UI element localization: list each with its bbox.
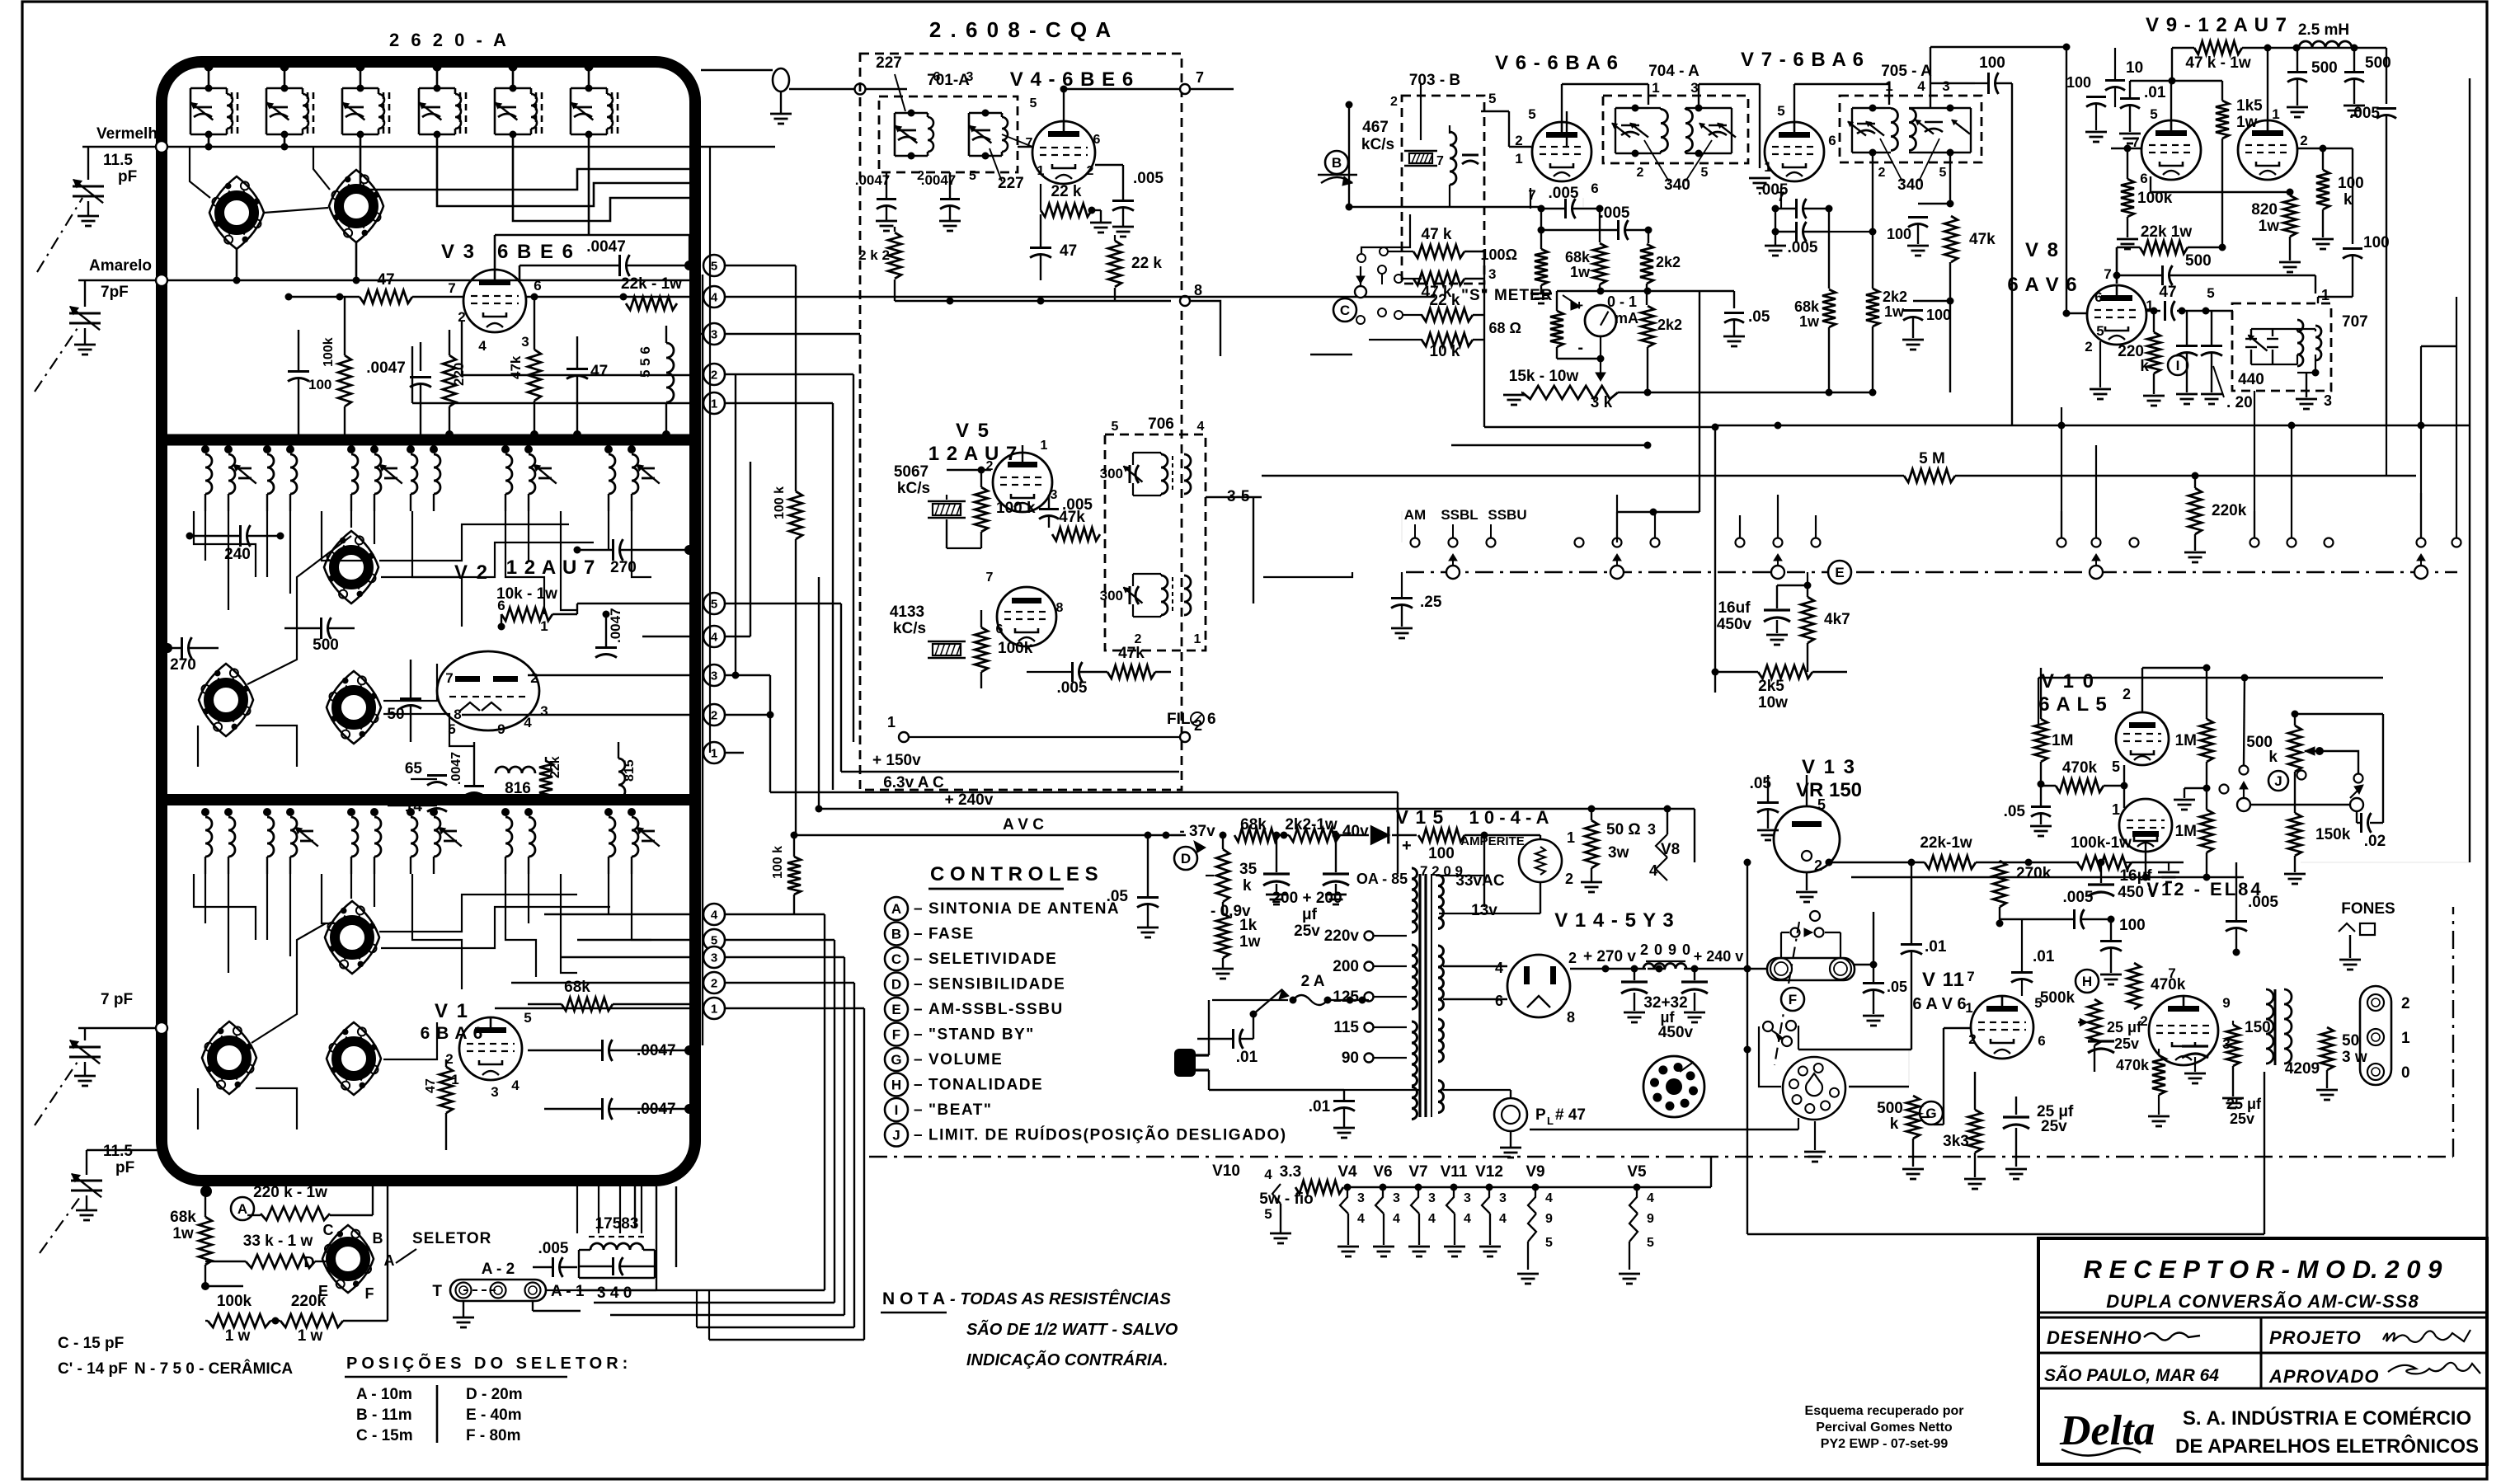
svg-text:450v: 450v [1658, 1024, 1694, 1041]
svg-text:2: 2 [1194, 717, 1202, 734]
svg-text:10k - 1w: 10k - 1w [496, 585, 557, 603]
svg-text:TONALIDADE: TONALIDADE [928, 1077, 1043, 1094]
svg-text:5067: 5067 [894, 463, 928, 481]
svg-text:A: A [237, 1201, 247, 1217]
svg-text:V 6 - 6 B A 6: V 6 - 6 B A 6 [1495, 52, 1619, 74]
svg-text:470k: 470k [2116, 1057, 2150, 1073]
svg-text:22 k: 22 k [1131, 255, 1162, 272]
svg-text:1w: 1w [1239, 933, 1261, 951]
svg-text:3: 3 [521, 334, 529, 350]
svg-text:25 μf: 25 μf [2107, 1019, 2142, 1036]
svg-text:V 9 - 1 2 A U 7: V 9 - 1 2 A U 7 [2146, 14, 2287, 36]
svg-text:E - 40m: E - 40m [466, 1407, 522, 1424]
svg-text:V 1 5: V 1 5 [1396, 806, 1445, 828]
svg-text:POSIÇÕES DO SELETOR:: POSIÇÕES DO SELETOR: [346, 1353, 632, 1373]
svg-text:"STAND BY": "STAND BY" [928, 1026, 1035, 1044]
svg-text:V 1: V 1 [435, 1000, 469, 1022]
svg-text:100: 100 [1887, 226, 1911, 242]
svg-text:270: 270 [170, 656, 196, 674]
svg-text:4: 4 [1357, 1212, 1365, 1226]
svg-text:5: 5 [2096, 323, 2104, 339]
svg-text:4: 4 [1545, 1191, 1553, 1205]
svg-text:5w - fio: 5w - fio [1259, 1190, 1313, 1208]
svg-text:6 A L 5: 6 A L 5 [2038, 693, 2107, 716]
svg-text:V 11: V 11 [1922, 969, 1965, 991]
svg-text:9: 9 [2222, 995, 2230, 1011]
svg-text:47: 47 [1060, 242, 1077, 260]
svg-text:V12 - EL84: V12 - EL84 [2146, 879, 2263, 899]
svg-text:1: 1 [1037, 164, 1045, 178]
svg-text:47 k - 1w: 47 k - 1w [2185, 54, 2250, 72]
svg-text:3: 3 [491, 1084, 498, 1100]
svg-text:1 w: 1 w [298, 1327, 323, 1345]
svg-text:3: 3 [1942, 78, 1949, 94]
svg-text:4: 4 [1647, 1191, 1654, 1205]
svg-text:7: 7 [2104, 266, 2111, 282]
svg-text:22k 1w: 22k 1w [2141, 223, 2193, 241]
svg-text:SÃO DE 1/2 WATT - SALVO: SÃO DE 1/2 WATT - SALVO [966, 1320, 1178, 1339]
svg-text:22 k: 22 k [1051, 183, 1082, 200]
svg-text:J: J [2274, 773, 2282, 789]
svg-text:2 A: 2 A [1301, 973, 1325, 990]
svg-text:kC/s: kC/s [1361, 136, 1394, 153]
svg-text:1: 1 [1567, 829, 1575, 846]
svg-text:V5: V5 [1627, 1163, 1647, 1181]
svg-text:pF: pF [118, 168, 137, 185]
svg-text:4: 4 [1393, 1212, 1400, 1226]
svg-text:2: 2 [1968, 1031, 1976, 1047]
svg-text:2 k 2: 2 k 2 [858, 247, 890, 263]
svg-text:15k - 10w: 15k - 10w [1509, 368, 1579, 385]
svg-text:47k: 47k [1969, 231, 1996, 248]
svg-text:.25: .25 [1420, 594, 1442, 611]
svg-text:7: 7 [1528, 187, 1535, 203]
svg-text:500: 500 [2185, 252, 2212, 270]
svg-text:.02: .02 [2364, 833, 2386, 850]
svg-text:C: C [323, 1222, 334, 1238]
svg-text:E: E [891, 1002, 900, 1017]
svg-text:SINTONIA DE ANTENA: SINTONIA DE ANTENA [928, 900, 1120, 918]
svg-text:.005: .005 [1758, 181, 1789, 199]
svg-text:k: k [2140, 358, 2149, 375]
svg-text:F - 80m: F - 80m [466, 1427, 521, 1444]
svg-text:4: 4 [1197, 420, 1205, 434]
svg-text:B: B [373, 1230, 383, 1247]
svg-text:3: 3 [1428, 1191, 1436, 1205]
svg-text:17583: 17583 [595, 1215, 639, 1233]
svg-text:227: 227 [998, 175, 1024, 192]
svg-text:4: 4 [1499, 1212, 1507, 1226]
svg-text:5: 5 [2150, 106, 2157, 122]
svg-text:k: k [2344, 191, 2353, 209]
svg-text:1M: 1M [2052, 732, 2073, 749]
svg-text:2k2: 2k2 [1657, 317, 1682, 333]
svg-text:2k2: 2k2 [1656, 254, 1681, 270]
svg-text:–: – [914, 1077, 923, 1094]
svg-text:200 + 200: 200 + 200 [1272, 890, 1342, 907]
svg-text:68k: 68k [1565, 249, 1591, 265]
svg-text:9: 9 [1647, 1212, 1654, 1226]
svg-text:5: 5 [711, 260, 717, 274]
svg-text:16uf: 16uf [1718, 599, 1751, 617]
svg-text:INDICAÇÃO CONTRÁRIA.: INDICAÇÃO CONTRÁRIA. [966, 1350, 1168, 1369]
svg-text:3: 3 [540, 703, 548, 719]
svg-text:1: 1 [1515, 151, 1522, 167]
svg-text:1: 1 [711, 1003, 717, 1017]
svg-text:2.5 mH: 2.5 mH [2298, 21, 2349, 39]
svg-text:kC/s: kC/s [893, 620, 926, 637]
svg-text:DE APARELHOS ELETRÔNICOS: DE APARELHOS ELETRÔNICOS [2175, 1435, 2479, 1458]
svg-text:2: 2 [1878, 166, 1886, 180]
svg-text:–: – [914, 1001, 923, 1018]
svg-text:R E C E P T O R - M O D. 2 0: R E C E P T O R - M O D. 2 0 9 [2084, 1255, 2442, 1284]
svg-text:- 37v: - 37v [1179, 823, 1215, 840]
svg-text:–: – [914, 1101, 923, 1119]
svg-text:–: – [914, 1127, 923, 1144]
svg-text:6: 6 [1207, 711, 1216, 728]
svg-text:500: 500 [313, 636, 339, 654]
svg-text:100: 100 [1926, 307, 1951, 323]
svg-text:1w: 1w [2259, 218, 2280, 235]
svg-text:4: 4 [478, 338, 487, 354]
svg-text:μf: μf [1302, 906, 1318, 923]
svg-text:6: 6 [2140, 171, 2147, 186]
svg-text:440: 440 [2238, 371, 2264, 388]
svg-text:707: 707 [2342, 313, 2368, 331]
svg-text:.0047: .0047 [449, 752, 463, 785]
svg-text:4: 4 [524, 715, 532, 730]
svg-text:2: 2 [711, 369, 717, 383]
svg-text:1: 1 [1041, 439, 1048, 453]
svg-text:7pF: 7pF [101, 284, 129, 301]
svg-text:.005: .005 [1788, 239, 1818, 256]
svg-text:.005: .005 [2063, 889, 2094, 906]
svg-text:V9: V9 [1526, 1163, 1544, 1181]
svg-text:.005: .005 [1600, 204, 1630, 222]
svg-text:6: 6 [2094, 289, 2102, 305]
svg-text:2 0 9 0: 2 0 9 0 [1640, 942, 1691, 958]
svg-text:100: 100 [2338, 175, 2364, 192]
svg-text:68k: 68k [1794, 298, 1820, 315]
svg-text:3: 3 [1488, 266, 1496, 282]
svg-text:33vAC: 33vAC [1455, 872, 1504, 890]
svg-text:1M: 1M [2175, 732, 2197, 749]
svg-text:3: 3 [1648, 821, 1656, 838]
svg-text:6.3v A C: 6.3v A C [883, 774, 944, 791]
svg-text:125: 125 [1333, 989, 1359, 1006]
svg-text:10 k: 10 k [1430, 343, 1460, 360]
svg-text:N O T A: N O T A [882, 1289, 945, 1308]
svg-text:+ 150v: + 150v [872, 752, 921, 769]
svg-text:7: 7 [1436, 154, 1444, 168]
svg-text:PY2 EWP - 07-set-99: PY2 EWP - 07-set-99 [1821, 1437, 1949, 1451]
svg-text:+ 240v: + 240v [945, 791, 994, 809]
svg-text:V4: V4 [1337, 1163, 1357, 1181]
svg-text:500: 500 [1877, 1100, 1903, 1117]
svg-text:2: 2 [1568, 950, 1577, 966]
svg-text:47 k: 47 k [1422, 226, 1452, 243]
svg-text:D - 20m: D - 20m [466, 1386, 523, 1403]
svg-text:T: T [432, 1283, 442, 1300]
svg-text:1: 1 [1885, 78, 1892, 94]
svg-text:V10: V10 [1212, 1162, 1240, 1180]
svg-text:100 k: 100 k [996, 500, 1036, 517]
svg-text:270: 270 [610, 559, 637, 576]
svg-text:k: k [1890, 1115, 1899, 1133]
svg-text:300: 300 [1100, 588, 1123, 603]
svg-text:G: G [891, 1052, 901, 1068]
svg-text:1: 1 [887, 714, 896, 730]
svg-text:.005: .005 [538, 1240, 569, 1257]
svg-text:25v: 25v [2230, 1111, 2254, 1127]
svg-text:5 M: 5 M [1919, 450, 1945, 467]
svg-text:2: 2 [986, 459, 994, 473]
svg-text:4: 4 [711, 291, 718, 305]
svg-text:APROVADO: APROVADO [2268, 1366, 2380, 1387]
svg-text:SELETIVIDADE: SELETIVIDADE [928, 951, 1057, 968]
svg-text:8: 8 [454, 707, 461, 722]
svg-text:SENSIBILIDADE: SENSIBILIDADE [928, 976, 1065, 993]
svg-text:2: 2 [2300, 133, 2307, 148]
svg-text:100k: 100k [998, 640, 1033, 657]
svg-text:C - 15m: C - 15m [356, 1427, 413, 1444]
svg-text:7: 7 [1196, 69, 1204, 86]
svg-text:C: C [891, 951, 901, 967]
svg-text:6: 6 [2038, 1033, 2045, 1049]
svg-text:13v: 13v [1471, 902, 1497, 919]
svg-text:450v: 450v [1717, 616, 1752, 633]
svg-text:.05: .05 [2004, 803, 2026, 820]
svg-text:2: 2 [1637, 166, 1644, 180]
svg-text:C' - 14 pF: C' - 14 pF [58, 1360, 128, 1378]
svg-text:V7: V7 [1408, 1163, 1427, 1181]
svg-text:LIMIT. DE RUÍDOS(POSIÇÃO DESLI: LIMIT. DE RUÍDOS(POSIÇÃO DESLIGADO) [928, 1126, 1287, 1144]
svg-text:3: 3 [1464, 1191, 1471, 1205]
svg-text:2 6 2 0 - A: 2 6 2 0 - A [389, 30, 510, 50]
svg-text:4133: 4133 [890, 603, 924, 621]
svg-text:3k3: 3k3 [1943, 1133, 1969, 1150]
svg-text:SSBU: SSBU [1488, 507, 1526, 523]
svg-text:8: 8 [1056, 601, 1064, 615]
svg-text:V 4 - 6 B E 6: V 4 - 6 B E 6 [1010, 68, 1134, 91]
svg-text:22k: 22k [548, 756, 562, 778]
svg-text:3w: 3w [1608, 844, 1629, 862]
svg-text:A: A [384, 1252, 395, 1269]
svg-text:4: 4 [711, 909, 718, 923]
svg-text:k: k [2268, 749, 2278, 766]
svg-text:4: 4 [711, 631, 718, 645]
svg-text:240: 240 [224, 546, 251, 563]
svg-text:H: H [2082, 974, 2092, 989]
svg-text:5: 5 [1528, 106, 1535, 122]
svg-text:47: 47 [590, 363, 608, 380]
svg-text:FASE: FASE [928, 926, 975, 943]
svg-text:DESENHO: DESENHO [2047, 1327, 2142, 1348]
svg-text:V 3: V 3 [441, 241, 476, 263]
svg-text:"BEAT": "BEAT" [928, 1101, 992, 1119]
svg-text:V 1 4 - 5 Y 3: V 1 4 - 5 Y 3 [1554, 909, 1675, 932]
svg-text:.005: .005 [2349, 105, 2380, 122]
svg-text:2 . 6 0 8 - C Q A: 2 . 6 0 8 - C Q A [929, 17, 1112, 42]
svg-text:3.3: 3.3 [1280, 1163, 1301, 1181]
svg-text:100: 100 [2119, 917, 2146, 934]
svg-text:3 w: 3 w [2342, 1049, 2367, 1066]
svg-text:33 k - 1 w: 33 k - 1 w [243, 1233, 313, 1250]
svg-text:S. A. INDÚSTRIA E COMÉRCIO: S. A. INDÚSTRIA E COMÉRCIO [2183, 1407, 2471, 1430]
svg-text:6: 6 [1093, 133, 1101, 147]
svg-text:500k: 500k [2040, 989, 2076, 1007]
svg-text:2: 2 [711, 977, 717, 991]
svg-text:+: + [1575, 298, 1583, 313]
svg-text:2: 2 [1087, 164, 1094, 178]
svg-text:5: 5 [1112, 420, 1119, 434]
svg-text:VOLUME: VOLUME [928, 1051, 1003, 1068]
svg-text:4k7: 4k7 [1824, 611, 1850, 628]
svg-text:A - 2: A - 2 [482, 1261, 515, 1278]
svg-text:100k: 100k [322, 337, 336, 367]
svg-text:pF: pF [115, 1159, 134, 1176]
svg-text:100: 100 [308, 377, 331, 392]
svg-text:11.5: 11.5 [103, 1143, 133, 1160]
svg-text:9: 9 [497, 721, 505, 737]
svg-text:3: 3 [1357, 1191, 1365, 1205]
svg-text:.0047: .0047 [855, 172, 891, 188]
svg-text:68 Ω: 68 Ω [1489, 320, 1521, 336]
svg-text:F: F [892, 1027, 900, 1043]
svg-text:2: 2 [711, 709, 717, 723]
svg-text:1: 1 [711, 397, 717, 411]
svg-text:706: 706 [1148, 416, 1174, 433]
svg-text:DUPLA CONVERSÃO AM-CW-SS8: DUPLA CONVERSÃO AM-CW-SS8 [2106, 1291, 2419, 1312]
svg-text:4: 4 [1264, 1167, 1272, 1182]
svg-text:E: E [1835, 565, 1844, 580]
svg-text:C O N T R O L E S: C O N T R O L E S [930, 863, 1098, 885]
svg-text:25v: 25v [2041, 1118, 2067, 1135]
svg-text:P: P [1535, 1106, 1546, 1124]
svg-text:D: D [304, 1254, 315, 1270]
svg-text:0 - 1: 0 - 1 [1607, 294, 1637, 310]
svg-text:B - 11m: B - 11m [356, 1407, 412, 1424]
svg-text:AM: AM [1404, 507, 1426, 523]
svg-text:1: 1 [1194, 632, 1201, 646]
svg-text:47: 47 [377, 271, 394, 289]
svg-text:47: 47 [2159, 284, 2176, 301]
svg-text:.01: .01 [2033, 948, 2055, 965]
svg-text:FONES: FONES [2341, 900, 2395, 918]
svg-text:# 47: # 47 [1555, 1106, 1586, 1124]
svg-text:50: 50 [387, 706, 404, 723]
svg-text:B: B [891, 927, 901, 942]
svg-text:V 8: V 8 [2025, 239, 2060, 261]
svg-text:5: 5 [1817, 796, 1826, 813]
svg-text:.05: .05 [1107, 888, 1129, 905]
svg-text:1: 1 [540, 618, 548, 634]
svg-text:.01: .01 [1309, 1098, 1331, 1115]
svg-text:"S" METER: "S" METER [1461, 287, 1553, 304]
svg-text:+: + [1402, 837, 1412, 855]
svg-text:100: 100 [2066, 74, 2091, 91]
svg-text:6: 6 [1495, 993, 1503, 1009]
svg-text:115: 115 [1333, 1019, 1359, 1036]
svg-text:270k: 270k [2016, 865, 2052, 882]
svg-text:6: 6 [933, 70, 941, 84]
svg-text:3: 3 [711, 328, 717, 342]
svg-text:k: k [1243, 877, 1252, 895]
svg-text:kC/s: kC/s [897, 480, 930, 497]
svg-text:6: 6 [996, 622, 1004, 636]
svg-text:Vermelho: Vermelho [96, 125, 167, 143]
svg-text:2: 2 [1390, 95, 1398, 109]
svg-text:A: A [891, 901, 901, 917]
svg-text:47k: 47k [1118, 645, 1145, 662]
svg-text:6 A V 6: 6 A V 6 [2007, 274, 2077, 296]
svg-text:22k - 1w: 22k - 1w [621, 275, 682, 293]
svg-text:1: 1 [1764, 159, 1771, 175]
svg-text:2: 2 [1814, 857, 1822, 874]
svg-text:.01: .01 [1236, 1049, 1258, 1066]
svg-text:.005: .005 [1133, 170, 1164, 187]
svg-text:1: 1 [2321, 287, 2329, 303]
svg-text:. 20: . 20 [2226, 394, 2253, 411]
svg-text:5: 5 [1488, 91, 1496, 106]
svg-text:5: 5 [2112, 758, 2120, 775]
svg-text:A V C: A V C [1003, 816, 1044, 834]
svg-text:50: 50 [2342, 1032, 2359, 1050]
svg-text:5: 5 [711, 598, 717, 612]
svg-text:2: 2 [2085, 339, 2092, 355]
svg-text:G: G [1925, 1106, 1936, 1121]
svg-text:470k: 470k [2151, 976, 2186, 993]
svg-text:3: 3 [1499, 1191, 1507, 1205]
svg-text:5: 5 [1545, 1236, 1553, 1250]
svg-text:μf: μf [1660, 1009, 1675, 1026]
svg-text:3: 3 [1393, 1191, 1400, 1205]
svg-text:+ 270 v: + 270 v [1583, 948, 1636, 965]
svg-text:V 5: V 5 [956, 420, 990, 442]
svg-text:5: 5 [1939, 166, 1947, 180]
svg-text:1w: 1w [1884, 303, 1905, 320]
svg-text:25v: 25v [1294, 923, 1320, 940]
svg-text:1: 1 [2401, 1030, 2410, 1047]
svg-text:6 B E 6: 6 B E 6 [497, 241, 575, 263]
svg-text:V11: V11 [1441, 1163, 1468, 1181]
svg-text:A - 1: A - 1 [551, 1283, 585, 1300]
svg-text:1 2 A U 7: 1 2 A U 7 [506, 556, 596, 579]
svg-text:V12: V12 [1475, 1163, 1503, 1181]
svg-text:B: B [1332, 155, 1342, 171]
svg-text:3: 3 [966, 70, 974, 84]
svg-text:200: 200 [1333, 958, 1359, 975]
svg-text:3 4 0: 3 4 0 [597, 1284, 632, 1302]
svg-text:C: C [1340, 303, 1350, 318]
svg-text:1w: 1w [172, 1225, 194, 1242]
svg-text:-: - [1577, 339, 1583, 357]
svg-text:2: 2 [2401, 995, 2410, 1012]
svg-text:SELETOR: SELETOR [412, 1230, 491, 1247]
svg-text:6 A V 6: 6 A V 6 [1912, 995, 1966, 1013]
svg-text:6 B A 6: 6 B A 6 [421, 1024, 484, 1043]
svg-text:68k: 68k [564, 979, 590, 996]
svg-text:1k: 1k [1239, 917, 1258, 934]
svg-text:Esquema recuperado por: Esquema recuperado por [1805, 1404, 1964, 1418]
svg-text:5: 5 [2207, 285, 2214, 301]
svg-text:.0047: .0047 [608, 608, 623, 643]
svg-text:7: 7 [986, 571, 994, 585]
svg-text:35: 35 [1239, 861, 1258, 878]
svg-text:1 w: 1 w [225, 1327, 251, 1345]
svg-text:4: 4 [1428, 1212, 1436, 1226]
svg-text:10w: 10w [1758, 694, 1788, 711]
